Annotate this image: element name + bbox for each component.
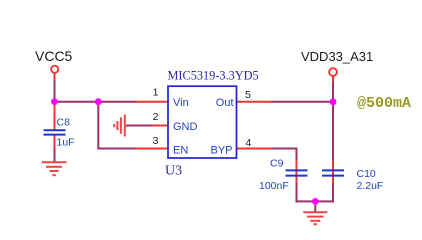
svg-text:@500mA: @500mA [357, 95, 411, 112]
svg-text:C8: C8 [57, 116, 71, 128]
svg-text:2.2uF: 2.2uF [357, 180, 384, 192]
svg-text:VDD33_A31: VDD33_A31 [301, 49, 373, 64]
svg-text:2: 2 [153, 111, 159, 123]
svg-text:3: 3 [153, 135, 159, 147]
svg-text:BYP: BYP [210, 145, 232, 157]
svg-text:4: 4 [246, 137, 252, 149]
svg-text:Vin: Vin [173, 97, 189, 109]
svg-text:EN: EN [173, 145, 188, 157]
svg-text:5: 5 [245, 89, 251, 101]
svg-text:VCC5: VCC5 [35, 48, 73, 64]
svg-text:100nF: 100nF [259, 180, 289, 192]
svg-text:U3: U3 [165, 164, 182, 179]
svg-text:Out: Out [216, 97, 234, 109]
svg-text:GND: GND [173, 121, 198, 133]
svg-text:1uF: 1uF [57, 137, 75, 149]
svg-text:C9: C9 [270, 158, 284, 170]
svg-text:1: 1 [153, 87, 159, 99]
svg-text:C10: C10 [357, 168, 376, 180]
svg-text:MIC5319-3.3YD5: MIC5319-3.3YD5 [168, 69, 259, 83]
